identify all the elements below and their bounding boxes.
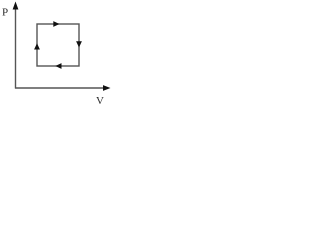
x-axis arrowhead: [103, 85, 111, 91]
arrow down on right edge: [76, 41, 82, 47]
arrow right on top edge: [53, 21, 59, 27]
y-axis (pressure): [15, 8, 17, 89]
x-axis (volume): [15, 87, 104, 89]
y-axis arrowhead: [13, 2, 19, 10]
svg-text:P: P: [2, 7, 8, 19]
arrow left on bottom edge: [55, 63, 61, 69]
cycle rectangle: [37, 24, 79, 66]
arrow up on left edge: [34, 43, 40, 49]
svg-text:V: V: [96, 95, 104, 105]
